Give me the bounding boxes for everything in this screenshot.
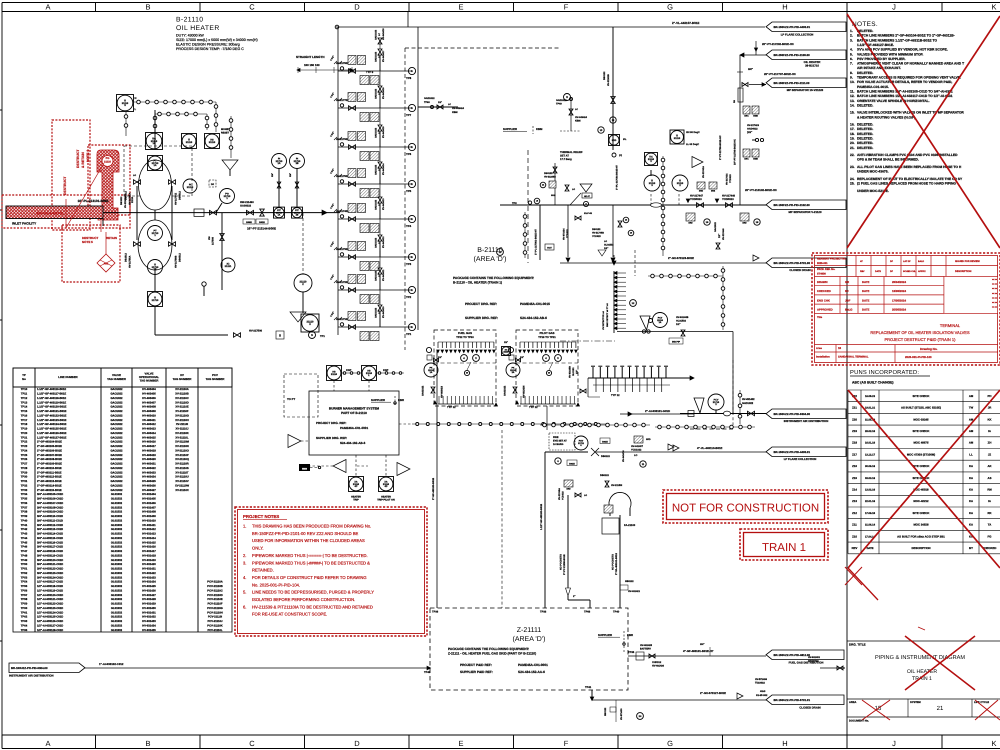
svg-text:HV-217200: HV-217200 [336, 281, 349, 284]
svg-text:(1/2": (1/2" [747, 131, 752, 134]
svg-text:J: J [892, 3, 896, 12]
svg-text:XV-21110V: XV-21110V [175, 480, 189, 483]
svg-text:6.: 6. [243, 604, 246, 609]
svg-text:HV-631427: HV-631427 [142, 594, 156, 597]
svg-text:GL01532: GL01532 [111, 528, 123, 531]
xa instrument between skids [502, 347, 511, 356]
svg-text:GA01022: GA01022 [422, 385, 425, 396]
svg-text:GAO1022: GAO1022 [110, 397, 123, 400]
svg-text:GL01532: GL01532 [111, 594, 123, 597]
temperature instruments [645, 153, 658, 166]
svg-text:LO: LO [133, 174, 136, 177]
svg-text:TP46: TP46 [21, 546, 28, 549]
logic triangles bottom [333, 460, 346, 473]
svg-text:TP49: TP49 [21, 559, 28, 562]
svg-text:B-21110: B-21110 [477, 247, 503, 254]
svg-text:HV-631408: HV-631408 [142, 511, 156, 514]
skid Z-21111 box [430, 608, 628, 690]
svg-text:2"-GF-463108-B01E: 2"-GF-463108-B01E [37, 458, 62, 461]
svg-text:BURNER MANAGEMENT SYSTEM: BURNER MANAGEMENT SYSTEM [329, 407, 380, 411]
svg-text:PROCESS DESIGN TEMP: -7/180 D: PROCESS DESIGN TEMP: -7/180 DEG C [176, 47, 244, 51]
typ12 comb rack [588, 377, 694, 379]
svg-text:21.06.14: 21.06.14 [865, 524, 876, 527]
svg-text:PAME45A-C01-0001: PAME45A-C01-0001 [518, 663, 548, 667]
svg-text:2"-GX-573126-B01E: 2"-GX-573126-B01E [668, 256, 694, 260]
svg-text:YCDR023: YCDR023 [690, 198, 702, 201]
svg-text:REV: REV [860, 270, 865, 273]
svg-text:Z18: Z18 [852, 441, 857, 445]
svg-text:3/4"-AI-633117-C01D: 3/4"-AI-633117-C01D [37, 546, 63, 549]
svg-text:GAD1022: GAD1022 [374, 51, 377, 62]
svg-text:SRD: SRD [688, 221, 693, 224]
bms dashed region [284, 374, 318, 417]
svg-text:PCV-21110D: PCV-21110D [207, 594, 222, 597]
svg-text:BaLG: BaLG [845, 308, 852, 312]
svg-text:BR-150UZZ-PR-PID-6304.00: BR-150UZZ-PR-PID-6304.00 [11, 666, 48, 670]
svg-text:1"-AI-633102-C012: 1"-AI-633102-C012 [99, 662, 124, 666]
svg-text:HV-631405: HV-631405 [142, 498, 156, 501]
svg-text:Z16: Z16 [852, 464, 857, 468]
svg-text:XV-21110U: XV-21110U [175, 476, 189, 479]
svg-text:HV-217500: HV-217500 [336, 175, 349, 178]
svg-text:GL01532: GL01532 [604, 243, 614, 246]
svg-text:21: 21 [937, 705, 944, 712]
svg-text:INSTRUMENT AIR DISTRIBUTION: INSTRUMENT AIR DISTRIBUTION [784, 419, 829, 423]
svg-text:TAG NUMBER: TAG NUMBER [107, 377, 126, 381]
wire 2-GF-483103 [436, 350, 438, 608]
svg-text:GL01532: GL01532 [111, 585, 123, 588]
banner instrument air right [766, 409, 846, 419]
fire eye cluster [549, 433, 575, 450]
revision table [848, 389, 1000, 391]
svg-text:GAD1022: GAD1022 [374, 270, 377, 281]
svg-text:1/2": 1/2" [718, 234, 721, 238]
svg-text:21110: 21110 [209, 141, 216, 144]
svg-text:4D: 4D [385, 485, 388, 488]
svg-text:SITE CHECK: SITE CHECK [913, 394, 930, 398]
svg-text:17.7 Barg: 17.7 Barg [560, 158, 572, 161]
svg-text:LO: LO [634, 454, 637, 457]
red cross over revision table [848, 390, 1000, 568]
svg-text:3/4"-AI-633109-C01D: 3/4"-AI-633109-C01D [37, 511, 63, 514]
svg-text:GL01532: GL01532 [111, 581, 123, 584]
wire instrument air extension [620, 413, 694, 415]
svg-text:LL: LL [969, 452, 973, 456]
svg-text:2"-GF-463106-B01E: 2"-GF-463106-B01E [37, 449, 62, 452]
svg-text:DR: DR [211, 183, 215, 186]
svg-text:HV-631433: HV-631433 [142, 620, 156, 623]
svg-text:GAD1022: GAD1022 [374, 88, 377, 99]
svg-text:HV-463408: HV-463408 [142, 406, 156, 409]
svg-text:DESCRIPTION: DESCRIPTION [955, 270, 972, 273]
svg-text:PROJECT NOTES: PROJECT NOTES [243, 514, 279, 519]
branch 2-PL-217081 [539, 205, 541, 260]
svg-text:DATE: DATE [862, 280, 870, 284]
svg-text:SRE: SRE [711, 189, 716, 192]
svg-text:GL01532: GL01532 [111, 603, 123, 606]
bms signal trunk [412, 423, 607, 425]
svg-text:ISSUED FOR REVIEW: ISSUED FOR REVIEW [955, 260, 980, 263]
svg-text:YCDR023: YCDR023 [722, 198, 734, 201]
svg-text:LINE NEEDS TO BE DEPRESSURISED: LINE NEEDS TO BE DEPRESSURISED, PURGED &… [252, 590, 374, 595]
svg-text:1A: 1A [153, 164, 156, 167]
svg-text:MOC 48675: MOC 48675 [913, 441, 929, 445]
svg-text:TP33: TP33 [21, 489, 28, 492]
svg-text:B01E: B01E [569, 462, 575, 465]
svg-text:BATCH LINE NUMBERS 1/2"-AI-633: BATCH LINE NUMBERS 1/2"-AI-633117-C01D T… [857, 94, 953, 98]
svg-text:GAO1022: GAO1022 [110, 428, 123, 431]
svg-text:LINE NUMBER: LINE NUMBER [58, 375, 77, 379]
svg-text:DESTRUCT: DESTRUCT [76, 149, 80, 168]
svg-text:GAD1022: GAD1022 [424, 97, 435, 100]
svg-text:REPLACEMENT OF IF KIT TO ELECT: REPLACEMENT OF IF KIT TO ELECTRICALLY IS… [857, 177, 963, 181]
svg-text:BR-150UZZ-PR-PID-4400.01: BR-150UZZ-PR-PID-4400.01 [774, 25, 811, 29]
svg-text:1A: 1A [659, 321, 662, 324]
svg-text:HV-631412: HV-631412 [142, 528, 156, 531]
manifold branch TP1 [338, 326, 412, 328]
svg-text:Installation: Installation [816, 356, 830, 359]
banner fuel gas distribution [766, 650, 844, 660]
svg-text:HV-631435: HV-631435 [142, 629, 156, 632]
svg-text:GL01532: GL01532 [111, 541, 123, 544]
svg-text:BR-250FZZ-PR-PID-2109.00: BR-250FZZ-PR-PID-2109.00 [774, 53, 811, 57]
instrument TI-21110 top-left [117, 95, 134, 112]
svg-text:3/4": 3/4" [271, 173, 274, 177]
svg-text:HV-431402: HV-431402 [742, 398, 755, 401]
instrument TI-21710 bottom [148, 292, 163, 307]
svg-text:1.1/2"-GF-483103-B01E: 1.1/2"-GF-483103-B01E [540, 503, 543, 530]
svg-text:GL01532: GL01532 [111, 624, 123, 627]
svg-text:1/2": 1/2" [504, 341, 508, 344]
manifold header line [337, 27, 339, 335]
svg-text:20"-PT-217202-B01E-HC: 20"-PT-217202-B01E-HC [762, 42, 794, 46]
svg-text:JBF: JBF [845, 298, 851, 302]
instrument 21110 circle [183, 179, 197, 193]
svg-text:xx xx: xx xx [992, 296, 998, 299]
svg-text:43x0: 43x0 [760, 690, 766, 693]
svg-text:TAG NUMBER: TAG NUMBER [206, 377, 225, 381]
svg-text:H: H [782, 739, 787, 748]
svg-text:2.: 2. [243, 553, 246, 558]
manifold branch TP3 [338, 256, 412, 258]
svg-text:AS BUILT (ST225, ABC 5210E): AS BUILT (ST225, ABC 5210E) [901, 406, 941, 410]
svg-text:MOC 34528: MOC 34528 [913, 523, 929, 527]
svg-text:GAO1022: GAO1022 [110, 414, 123, 417]
svg-text:2"-GF-463105-B01E: 2"-GF-463105-B01E [37, 445, 62, 448]
svg-text:20"-PT-21708-B01E-HC: 20"-PT-21708-B01E-HC [734, 139, 737, 165]
svg-text:DRC: DRC [744, 157, 749, 160]
svg-text:10.: 10. [850, 80, 855, 84]
svg-text:HV-631429: HV-631429 [142, 603, 156, 606]
svg-text:UV DETECTOR x4: UV DETECTOR x4 [602, 311, 605, 330]
svg-text:DELETED.: DELETED. [857, 132, 873, 136]
svg-text:(C): (C) [619, 154, 622, 157]
svg-text:13/05/2024: 13/05/2024 [892, 289, 906, 293]
svg-text:PROF. REF. No.: PROF. REF. No. [817, 268, 836, 271]
svg-text:21110: 21110 [331, 373, 338, 376]
svg-text:HV-463404: HV-463404 [142, 388, 156, 391]
svg-text:TP23: TP23 [21, 445, 28, 448]
svg-text:1/2"-AI-633122-C01D: 1/2"-AI-633122-C01D [37, 603, 63, 606]
svg-text:SRD: SRD [551, 194, 556, 197]
valve HV-21753A [134, 180, 141, 185]
svg-text:XV-21110N: XV-21110N [175, 445, 189, 448]
svg-text:DB0512: DB0512 [179, 253, 182, 262]
svg-text:KBR: KBR [398, 398, 404, 402]
svg-text:IA: IA [988, 429, 991, 433]
wire 2-VA-453101 [619, 515, 621, 608]
svg-text:BR-150UZZ-PR-PID-4812.00: BR-150UZZ-PR-PID-4812.00 [774, 653, 811, 657]
svg-text:RK: RK [987, 511, 991, 515]
svg-text:THERMAL RELIEF: THERMAL RELIEF [560, 151, 583, 154]
svg-text:TP38: TP38 [540, 611, 547, 614]
svg-text:2"-GF-463107-B01E: 2"-GF-463107-B01E [37, 454, 62, 457]
svg-text:XV-21110P: XV-21110P [175, 454, 189, 457]
heater shell lower [138, 220, 172, 270]
destruct connector [100, 221, 102, 232]
svg-text:HV-463412: HV-463412 [142, 423, 156, 426]
svg-text:APPROVED: APPROVED [817, 308, 833, 312]
svg-text:HV-463406: HV-463406 [142, 397, 156, 400]
svg-text:S1-F-05: S1-F-05 [584, 212, 593, 215]
svg-text:XV-21110M: XV-21110M [175, 441, 190, 444]
svg-text:HV-217800: HV-217800 [336, 62, 349, 65]
svg-text:TP57: TP57 [21, 594, 28, 597]
valve HV-21756B [169, 242, 176, 247]
svg-text:REV: REV [852, 546, 858, 550]
svg-text:GAD1022: GAD1022 [374, 199, 377, 210]
svg-text:KA: KA [969, 499, 973, 503]
wire air drop [732, 332, 734, 415]
svg-text:DUTY: 43000 kW: DUTY: 43000 kW [176, 34, 204, 38]
svg-text:RM: RM [987, 487, 992, 491]
svg-text:DRG. TITLE: DRG. TITLE [849, 643, 866, 647]
svg-text:HV-631428: HV-631428 [142, 598, 156, 601]
svg-text:KV-441410: KV-441410 [382, 306, 385, 318]
svg-text:TP36: TP36 [21, 502, 28, 505]
svg-text:PCV-21110F: PCV-21110F [207, 603, 222, 606]
svg-text:GAO1022: GAO1022 [110, 432, 123, 435]
svg-text:3/4": 3/4" [289, 173, 292, 177]
svg-text:TP44: TP44 [21, 537, 28, 540]
inb pip box [669, 338, 683, 344]
svg-text:C: C [249, 3, 255, 12]
svg-text:GAD1022: GAD1022 [374, 29, 377, 40]
title block area system [847, 698, 1000, 700]
svg-text:(AREA 'D'): (AREA 'D') [512, 635, 545, 643]
svg-text:13.02.16: 13.02.16 [865, 488, 876, 491]
svg-text:GAO1022: GAO1022 [110, 480, 123, 483]
svg-text:2025-001-PI-PID-103: 2025-001-PI-PID-103 [905, 355, 932, 359]
svg-text:TA: TA [988, 523, 992, 527]
destruct cloud outline [52, 120, 90, 230]
svg-text:1A: 1A [430, 371, 433, 374]
svg-text:17.: 17. [850, 127, 855, 131]
svg-text:10 BARG: 10 BARG [553, 443, 564, 446]
svg-text:CLOSED DRAIN: CLOSED DRAIN [789, 268, 810, 272]
svg-text:TP54: TP54 [21, 581, 28, 584]
svg-text:3/4"-AI-633122-C01D: 3/4"-AI-633122-C01D [37, 568, 63, 571]
svg-text:GA01022: GA01022 [504, 385, 507, 396]
svg-text:HV-631411: HV-631411 [142, 524, 156, 527]
svg-text:GL01532: GL01532 [111, 511, 123, 514]
svg-text:HV-631404: HV-631404 [142, 493, 156, 496]
svg-text:HV-631417: HV-631417 [142, 550, 156, 553]
svg-text:3/4"-AI-633112-C01D: 3/4"-AI-633112-C01D [37, 524, 63, 527]
svg-text:2"-VA-453101-B01E: 2"-VA-453101-B01E [615, 553, 618, 575]
svg-text:TP63: TP63 [21, 620, 28, 623]
svg-text:2"-GF-483103-B01E: 2"-GF-483103-B01E [432, 477, 435, 500]
svg-text:GL01532: GL01532 [111, 607, 123, 610]
outlet line items [234, 333, 241, 338]
manifold branch TP4 [338, 218, 412, 220]
svg-text:Z20: Z20 [852, 417, 857, 421]
svg-text:4C: 4C [355, 485, 358, 488]
svg-text:3/4"-AI-633124-C01D: 3/4"-AI-633124-C01D [37, 576, 63, 579]
svg-text:XV-21110T: XV-21110T [175, 471, 189, 474]
banner closed drain mid [766, 258, 846, 268]
svg-text:TP50: TP50 [21, 563, 28, 566]
instrument HS-21110 reset [205, 134, 220, 149]
svg-text:1/2"-AI-633118-C01D: 1/2"-AI-633118-C01D [37, 585, 63, 588]
svg-text:BR-150UZZ-PR-PID-5701.01: BR-150UZZ-PR-PID-5701.01 [774, 698, 811, 702]
svg-text:2"-VL-443107-B01E: 2"-VL-443107-B01E [672, 21, 699, 25]
svg-text:GL01532: GL01532 [111, 537, 123, 540]
svg-text:GA01022: GA01022 [714, 221, 717, 232]
svg-text:21221: 21221 [225, 265, 232, 268]
svg-text:MSB: MSB [302, 467, 307, 470]
svg-text:BR-150UZZ-PR-PID-6304.00: BR-150UZZ-PR-PID-6304.00 [774, 412, 811, 416]
svg-text:17.06.15: 17.06.15 [865, 512, 876, 515]
svg-text:TP51: TP51 [21, 568, 28, 571]
svg-text:H: H [782, 3, 787, 12]
svg-text:GL01532: GL01532 [111, 611, 123, 614]
svg-text:TP45: TP45 [21, 541, 28, 544]
banner LP flare collection top [766, 22, 846, 32]
svg-text:TW: TW [969, 406, 974, 410]
svg-text:GAO1022: GAO1022 [110, 489, 123, 492]
svg-text:IA: IA [988, 499, 991, 503]
svg-text:TP28: TP28 [21, 467, 28, 470]
svg-text:VALVES PROVIDED WITH MINIMUM S: VALVES PROVIDED WITH MINIMUM STOP. [857, 52, 924, 56]
svg-text:2"-GF-463110-B01E: 2"-GF-463110-B01E [37, 467, 62, 470]
svg-text:PCV-21110H: PCV-21110H [207, 611, 222, 614]
drain box DR [209, 180, 216, 187]
label 20-PT-217202 [740, 53, 744, 57]
svg-text:KV-441416: KV-441416 [382, 87, 385, 99]
svg-text:PIPEWORK MARKED THUS |-=====-: PIPEWORK MARKED THUS |-=====-| TO BE DES… [252, 553, 368, 558]
svg-text:TP20: TP20 [21, 432, 28, 435]
svg-text:AREA: AREA [849, 701, 856, 704]
svg-text:TP22 TO TP33: TP22 TO TP33 [456, 336, 474, 339]
svg-text:HV-211539 & PIT21110IA TO BE D: HV-211539 & PIT21110IA TO BE DESTRUCTED … [252, 604, 373, 609]
svg-text:TERMINAL: TERMINAL [940, 323, 961, 328]
svg-text:GAO1022: GAO1022 [110, 423, 123, 426]
svg-text:1.1/2"-GF-463121-B01E: 1.1/2"-GF-463121-B01E [37, 410, 67, 413]
svg-text:NOT FOR CONSTRUCTION: NOT FOR CONSTRUCTION [672, 503, 819, 515]
destruct PSV diamond [97, 254, 115, 272]
svg-text:HV-463407: HV-463407 [142, 401, 156, 404]
svg-text:AIR INTAKE AND EXHAUST.: AIR INTAKE AND EXHAUST. [857, 66, 901, 70]
svg-text:TP58: TP58 [21, 598, 28, 601]
collection line top [417, 27, 419, 60]
svg-text:YCD1022: YCD1022 [631, 448, 642, 451]
svg-text:TYP 12: TYP 12 [529, 406, 538, 409]
border frame top ruler [2, 2, 1000, 4]
svg-text:HV-463405: HV-463405 [142, 393, 156, 396]
svg-text:PAME45A-C01-0015.: PAME45A-C01-0015. [857, 85, 889, 89]
svg-text:GL01532: GL01532 [111, 559, 123, 562]
svg-text:38-B21710: 38-B21710 [805, 63, 819, 67]
svg-text:21.: 21. [850, 146, 855, 150]
dash-dot boundary [560, 340, 615, 342]
svg-text:HV-631434: HV-631434 [142, 624, 156, 627]
svg-text:TP5: TP5 [406, 189, 412, 193]
svg-text:G: G [667, 739, 673, 748]
svg-text:KA: KA [969, 511, 973, 515]
svg-text:XV-21110O: XV-21110O [175, 449, 189, 452]
svg-text:HV-21754Z: HV-21754Z [175, 192, 178, 205]
svg-text:LC: LC [378, 33, 381, 36]
wire 4-VL-443113 [545, 451, 588, 453]
svg-text:GAD1022: GAD1022 [742, 402, 754, 405]
svg-text:SCHED CHL: SCHED CHL [903, 270, 916, 273]
svg-text:HV-631419: HV-631419 [142, 559, 156, 562]
svg-text:GL01532: GL01532 [111, 502, 123, 505]
svg-text:TEMPORARY ACCESS IS REQUIRED F: TEMPORARY ACCESS IS REQUIRED FOR OPENING… [857, 76, 961, 80]
svg-text:YCD023: YCD023 [592, 235, 601, 238]
svg-text:3/4": 3/4" [700, 643, 704, 646]
svg-text:TP18: TP18 [21, 423, 28, 426]
svg-text:PACKAGE CONTAINS THE FOLLOWING: PACKAGE CONTAINS THE FOLLOWING EQUIPMENT… [453, 276, 534, 280]
svg-text:ELASTIC DESIGN PRESSURE: 30bar: ELASTIC DESIGN PRESSURE: 30barg [176, 43, 240, 47]
svg-text:TP35: TP35 [21, 498, 28, 501]
svg-text:UNDER MOC-43675.: UNDER MOC-43675. [857, 170, 889, 174]
svg-text:GL01532: GL01532 [111, 498, 123, 501]
svg-text:GL01532: GL01532 [111, 524, 123, 527]
wire riser to flare [739, 55, 741, 205]
svg-text:HV-631414: HV-631414 [142, 537, 156, 540]
svg-text:& RETAIN: & RETAIN [81, 152, 85, 168]
svg-text:1/2"-AI-633119-C01D: 1/2"-AI-633119-C01D [37, 589, 63, 592]
svg-text:BATTERY: BATTERY [640, 647, 651, 650]
svg-text:KBM: KBM [536, 127, 543, 131]
svg-text:TP40: TP40 [21, 519, 28, 522]
svg-text:2"-AI-633101-G01D: 2"-AI-633101-G01D [645, 409, 670, 413]
svg-text:TP43: TP43 [21, 533, 28, 536]
inline strainer and valve [194, 209, 204, 216]
svg-text:1B: 1B [296, 214, 299, 217]
svg-text:KA: KA [969, 476, 973, 480]
svg-text:GAO1022: GAO1022 [110, 388, 123, 391]
manifold branch TP7 [338, 107, 412, 109]
svg-text:GL01532: GL01532 [111, 629, 123, 632]
svg-text:B-21110: B-21110 [176, 17, 204, 24]
svg-text:TP31: TP31 [21, 480, 28, 483]
svg-text:5.: 5. [243, 590, 246, 595]
svg-text:FUEL GAS: FUEL GAS [458, 331, 472, 335]
border frame title column divider [846, 12, 848, 736]
svg-text:xx xx: xx xx [992, 301, 998, 304]
border frame left edge [1, 3, 3, 749]
svg-text:G: G [667, 3, 673, 12]
svg-text:PACKAGE CONTAINS THE FOLLOWING: PACKAGE CONTAINS THE FOLLOWING EQUIPMENT… [448, 647, 529, 651]
svg-text:21110: 21110 [187, 186, 194, 189]
svg-text:GL01532: GL01532 [111, 563, 123, 566]
svg-text:Z11: Z11 [852, 523, 857, 527]
svg-text:TYP 12: TYP 12 [447, 406, 456, 409]
svg-text:GAD1022: GAD1022 [374, 307, 377, 318]
